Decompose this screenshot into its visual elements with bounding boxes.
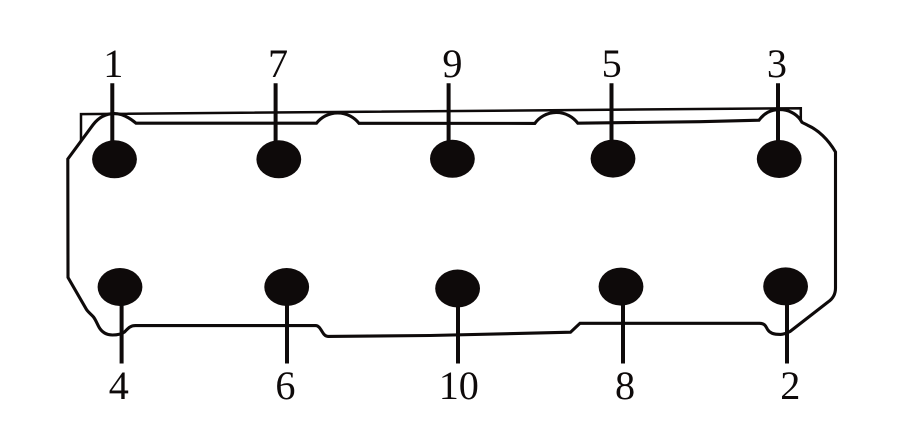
bolt 7	[256, 140, 301, 178]
bolt 5	[591, 140, 636, 178]
leader line 8	[621, 287, 625, 364]
svg-text:6: 6	[275, 363, 295, 408]
svg-text:1: 1	[103, 41, 123, 86]
leader line 10	[456, 288, 460, 364]
bolt 3	[757, 140, 802, 178]
leader line 5	[610, 83, 614, 159]
leader line 3	[776, 83, 780, 159]
svg-text:7: 7	[268, 41, 288, 86]
svg-text:9: 9	[442, 41, 462, 86]
svg-text:5: 5	[602, 41, 622, 86]
cover rectangle	[81, 108, 801, 141]
leader line 6	[285, 287, 289, 364]
bolt 8	[599, 268, 644, 306]
bolt 9	[430, 140, 475, 178]
bolt 1	[92, 140, 137, 178]
leader line 2	[785, 287, 789, 364]
bolt 10	[435, 270, 480, 308]
svg-text:2: 2	[780, 363, 800, 408]
leader line 4	[120, 287, 124, 364]
svg-text:4: 4	[109, 363, 129, 408]
leader line 7	[274, 83, 278, 159]
svg-text:8: 8	[615, 363, 635, 408]
svg-text:3: 3	[767, 41, 787, 86]
leader line 9	[447, 83, 451, 159]
leader line 1	[110, 83, 114, 159]
svg-text:10: 10	[439, 363, 479, 408]
bolt 6	[264, 268, 309, 306]
bolt 2	[763, 267, 808, 305]
bolt 4	[98, 268, 143, 306]
cylinder head outline	[68, 110, 836, 337]
